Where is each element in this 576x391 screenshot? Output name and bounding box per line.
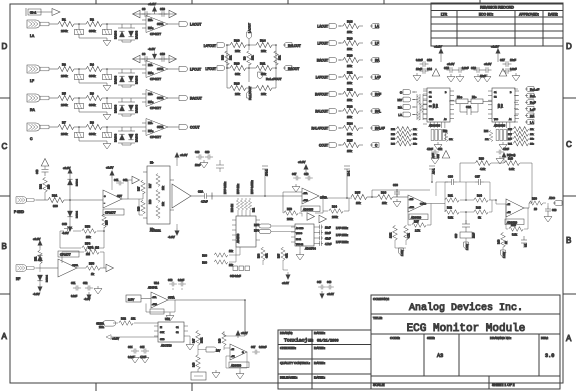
svg-text:C10: C10 xyxy=(160,7,165,11)
svg-text:10k: 10k xyxy=(347,30,352,34)
svg-text:INA+: INA+ xyxy=(148,72,154,75)
diode BAS04 down xyxy=(128,76,133,82)
resistor R36 10k xyxy=(377,195,392,200)
buffer tri FGND out xyxy=(132,176,140,184)
resistor R32 220 xyxy=(43,178,48,192)
capacitor RA1 xyxy=(78,98,80,103)
svg-text:+3.3V: +3.3V xyxy=(106,166,114,170)
connector RA xyxy=(27,94,51,102)
svg-text:R7: R7 xyxy=(62,121,66,125)
svg-text:C: C xyxy=(2,142,8,151)
mux gnd right2 xyxy=(474,74,482,82)
wilson wires row2 xyxy=(227,64,276,88)
svg-text:-3.3V: -3.3V xyxy=(62,231,69,235)
svg-text:RAOUT: RAOUT xyxy=(288,67,299,71)
resistor R53 10k xyxy=(82,229,96,234)
cap bank LPF xyxy=(318,225,323,230)
op-amp U10 label xyxy=(301,206,320,212)
resistor R41 xyxy=(445,198,459,203)
svg-text:R10: R10 xyxy=(234,39,240,43)
junction dots xyxy=(226,44,228,46)
svg-text:HPF 0.5Hz: HPF 0.5Hz xyxy=(224,181,227,194)
svg-text:LTR: LTR xyxy=(441,13,448,17)
resistor R39 4.3k xyxy=(475,161,490,166)
resistor R11 30k xyxy=(256,65,272,70)
svg-text:R11: R11 xyxy=(260,62,266,66)
svg-text:LF: LF xyxy=(30,79,34,83)
svg-text:C22: C22 xyxy=(438,149,443,151)
wire R5-R6 xyxy=(74,97,86,99)
svg-text:OP4177: OP4177 xyxy=(150,32,161,36)
revision record table xyxy=(431,3,563,46)
op-amp U12 AD8609 xyxy=(506,199,524,217)
svg-text:BAS04: BAS04 xyxy=(114,104,118,113)
svg-text:VSS S4: VSS S4 xyxy=(296,244,304,246)
svg-text:R41: R41 xyxy=(448,194,453,198)
op-amp U11 AD8609 xyxy=(408,195,426,212)
svg-text:LPF 25Hz: LPF 25Hz xyxy=(336,233,349,237)
resistor R15 20k vert xyxy=(274,51,279,65)
svg-text:BAS04: BAS04 xyxy=(135,30,139,39)
svg-text:R58 1M: R58 1M xyxy=(232,204,234,212)
svg-text:RA: RA xyxy=(398,106,402,110)
ground C28 xyxy=(200,160,208,168)
svg-text:-3.3V: -3.3V xyxy=(148,47,155,51)
svg-text:C33: C33 xyxy=(552,209,557,212)
svg-text:C38: C38 xyxy=(456,233,458,238)
svg-text:+IN: +IN xyxy=(507,212,511,214)
svg-text:200k: 200k xyxy=(287,217,293,221)
svg-text:C67: C67 xyxy=(251,346,256,349)
resistor Rb- xyxy=(471,99,483,104)
junction T xyxy=(211,193,213,200)
mux output flag R+L xyxy=(525,93,534,98)
ground C xyxy=(103,141,111,149)
supply rail +3.3V xyxy=(133,13,176,15)
diode D9 up xyxy=(67,179,72,185)
resistor Rb+ xyxy=(456,99,468,104)
svg-text:20k: 20k xyxy=(261,92,266,96)
svg-text:10k: 10k xyxy=(86,235,91,239)
resistor R21 10k xyxy=(343,74,359,79)
svg-text:JP2-1: JP2-1 xyxy=(266,169,269,176)
trimmer box xyxy=(191,372,206,380)
capacitor LA1 xyxy=(78,24,80,29)
svg-text:INA-: INA- xyxy=(148,122,153,125)
svg-text:R90: R90 xyxy=(532,197,537,201)
ladder wire L R18 xyxy=(339,25,343,27)
svg-text:R40: R40 xyxy=(508,157,513,161)
svg-text:200k: 200k xyxy=(61,103,68,107)
svg-text:R20: R20 xyxy=(347,54,353,58)
svg-text:R16: R16 xyxy=(234,82,240,86)
svg-text:F GND: F GND xyxy=(14,210,25,214)
svg-text:200k: 200k xyxy=(332,215,338,219)
svg-text:OUT1: OUT1 xyxy=(157,68,164,71)
svg-text:LFOUT: LFOUT xyxy=(190,68,201,72)
svg-text:300k: 300k xyxy=(89,132,96,136)
svg-text:D: D xyxy=(2,42,8,51)
mux cap C13 xyxy=(420,61,429,67)
svg-text:R39: R39 xyxy=(479,157,484,161)
resistor R61 box xyxy=(150,309,164,314)
wire U6 to U5 xyxy=(128,193,143,215)
ground mux right cluster xyxy=(499,142,507,150)
diode BAS04 down xyxy=(128,31,133,37)
svg-text:RF: RF xyxy=(16,277,20,281)
net flag R+LFOUT vertical xyxy=(247,92,252,98)
op-amp U7 OP2177 xyxy=(58,259,77,277)
net flag 1.25V c xyxy=(501,250,506,256)
resistor R16 20k xyxy=(230,85,246,90)
ladder net LA xyxy=(370,24,379,29)
svg-text:GND: GND xyxy=(160,339,165,341)
ground U15 caps xyxy=(131,355,139,363)
ladder net R+L xyxy=(370,109,379,114)
wire MP to U9 xyxy=(271,226,295,232)
svg-text:10k: 10k xyxy=(347,132,352,136)
feedback U10 xyxy=(283,192,323,213)
svg-text:HPF 0.05Hz: HPF 0.05Hz xyxy=(251,180,254,194)
svg-text:10k: 10k xyxy=(347,149,352,153)
power -3.3V switch xyxy=(286,272,291,280)
svg-text:10k: 10k xyxy=(382,201,387,205)
wire R41-R44 xyxy=(445,199,496,201)
svg-text:ECO NO:: ECO NO: xyxy=(479,13,493,17)
wire input C xyxy=(51,126,58,128)
svg-text:R14: R14 xyxy=(260,39,266,43)
svg-text:C29: C29 xyxy=(205,151,210,154)
svg-text:OP2177: OP2177 xyxy=(105,211,116,215)
svg-text:C: C xyxy=(566,140,572,149)
svg-text:QUALITY CONTROL:: QUALITY CONTROL: xyxy=(280,361,310,365)
svg-text:300k: 300k xyxy=(89,29,96,33)
svg-text:0.33uF: 0.33uF xyxy=(259,346,267,349)
svg-text:C13: C13 xyxy=(427,58,432,62)
wire op-amp out xyxy=(168,68,177,70)
resistor R42 5.6k xyxy=(445,210,459,215)
solder pads MP xyxy=(233,266,238,271)
resistor R48 vert xyxy=(196,355,201,369)
svg-text:OUTB: OUTB xyxy=(420,204,427,206)
power -3.3V RLD xyxy=(38,284,43,292)
resistor R54 1M xyxy=(82,246,96,251)
svg-text:C17: C17 xyxy=(500,58,505,62)
resistor R35 10k xyxy=(351,194,367,199)
mux gnd left xyxy=(413,73,421,81)
diode BAS04 up xyxy=(119,105,124,111)
svg-text:C49: C49 xyxy=(62,222,67,226)
svg-text:R21: R21 xyxy=(347,71,353,75)
wire FGND xyxy=(36,199,48,201)
power +3.3V mux left xyxy=(439,48,444,56)
svg-text:LPF H2Hz: LPF H2Hz xyxy=(336,240,349,244)
svg-text:LAOUT: LAOUT xyxy=(317,25,328,29)
diode BAS04 up xyxy=(119,31,124,37)
svg-text:MV: MV xyxy=(398,98,403,102)
svg-text:DATED:: DATED: xyxy=(314,346,325,350)
svg-text:+INB: +INB xyxy=(409,207,414,209)
ladder wire L R20 xyxy=(339,59,343,61)
svg-text:4.7uF: 4.7uF xyxy=(325,243,332,246)
svg-text:R55: R55 xyxy=(106,220,109,225)
svg-text:3.6k: 3.6k xyxy=(509,167,515,171)
svg-text:10uF: 10uF xyxy=(480,74,486,78)
svg-text:OUT1: OUT1 xyxy=(157,126,164,129)
mux buffer tri right xyxy=(499,69,507,77)
svg-text:R5: R5 xyxy=(62,92,66,96)
svg-text:C10: C10 xyxy=(160,52,165,56)
svg-text:Analog Devices Inc.: Analog Devices Inc. xyxy=(409,302,523,314)
svg-text:LFOUT: LFOUT xyxy=(318,42,329,46)
svg-text:10uF: 10uF xyxy=(195,164,201,167)
svg-text:B: B xyxy=(2,242,7,251)
pin header right mux xyxy=(496,122,510,128)
svg-text:+3.3V: +3.3V xyxy=(434,45,442,49)
zone ticks top xyxy=(96,0,480,4)
mux cap C15b xyxy=(456,67,465,73)
resistor R44 xyxy=(474,198,488,203)
op-amp RAOUT xyxy=(142,90,168,107)
net flag R+LOUT xyxy=(283,43,292,48)
svg-text:R51: R51 xyxy=(35,256,38,261)
svg-text:ADC: ADC xyxy=(549,196,555,200)
resistor R10 20k xyxy=(230,42,246,47)
resistor R38 120k vert xyxy=(393,226,398,240)
svg-text:B: B xyxy=(566,236,571,245)
diode BAS04 down xyxy=(128,134,133,140)
bypass caps U6 xyxy=(116,181,124,186)
op-amp U11 label xyxy=(409,214,428,220)
mux output flag RA xyxy=(525,113,534,118)
svg-text:LB-1: LB-1 xyxy=(348,170,351,176)
svg-text:R+LFOUT: R+LFOUT xyxy=(248,86,252,100)
svg-text:D: D xyxy=(566,42,572,51)
ground R48 xyxy=(212,370,220,378)
ladder wire R R21 xyxy=(359,76,363,78)
svg-text:+3.3V: +3.3V xyxy=(180,153,188,157)
mux cap C16b xyxy=(483,67,492,73)
feedback U12 xyxy=(496,200,528,229)
wire U14 out xyxy=(175,300,245,336)
svg-text:R45: R45 xyxy=(511,223,516,227)
svg-text:SCK: SCK xyxy=(160,332,165,334)
resistor R24 10k xyxy=(343,125,359,130)
mux input resistor pack xyxy=(417,94,423,120)
mux cap C18 xyxy=(503,68,512,74)
wire cap1 gnd xyxy=(79,80,107,83)
bypass cap A xyxy=(142,56,151,62)
svg-text:10k: 10k xyxy=(347,98,352,102)
ground mux left cluster xyxy=(434,142,442,150)
mux gnd right xyxy=(512,73,520,81)
IC U8 ADG736 xyxy=(236,216,256,247)
svg-text:R43: R43 xyxy=(476,206,481,210)
svg-text:DATED:: DATED: xyxy=(314,361,325,365)
svg-text:+IN: +IN xyxy=(231,356,235,358)
wire U12 out xyxy=(524,207,529,209)
svg-text:C64: C64 xyxy=(128,346,133,349)
connector LF xyxy=(27,65,51,73)
svg-text:-3.3V: -3.3V xyxy=(33,292,40,296)
resistor R64 vert xyxy=(261,248,265,261)
connector C xyxy=(27,123,51,131)
op-amp U16 label xyxy=(229,362,249,368)
svg-text:22nF: 22nF xyxy=(474,232,476,238)
svg-text:+3.3V: +3.3V xyxy=(484,62,492,66)
wire to diodes xyxy=(102,23,146,25)
resistor R27 22k xyxy=(141,180,145,194)
svg-text:-INA: -INA xyxy=(303,192,308,195)
ground U15 xyxy=(186,342,194,350)
capacitor C49 xyxy=(64,226,73,231)
svg-text:R46: R46 xyxy=(498,239,501,244)
svg-text:10k: 10k xyxy=(347,64,352,68)
svg-text:R54: R54 xyxy=(88,246,94,250)
svg-text:5.6k: 5.6k xyxy=(448,216,454,220)
resistor R18 10k xyxy=(343,23,359,28)
svg-text:2.5V: 2.5V xyxy=(128,298,134,302)
svg-text:C15: C15 xyxy=(444,66,449,70)
svg-text:C46: C46 xyxy=(327,282,332,284)
svg-text:AD8221: AD8221 xyxy=(150,229,161,233)
svg-text:DATE:: DATE: xyxy=(548,13,558,17)
svg-text:R48: R48 xyxy=(193,362,196,367)
wire R34 xyxy=(323,198,352,211)
bypass caps U14 xyxy=(169,282,177,287)
resistor R81 10k xyxy=(513,141,528,146)
op-amp U16 AD8600 xyxy=(230,344,247,360)
resistor R90 xyxy=(529,201,543,205)
svg-text:R4: R4 xyxy=(90,63,94,67)
svg-text:R+L: R+L xyxy=(530,94,536,98)
cap mux left 4.7uF xyxy=(431,150,439,155)
buffer tri filter xyxy=(319,215,327,223)
resistor R1 200k xyxy=(58,21,74,26)
svg-text:Rb+: Rb+ xyxy=(457,95,463,99)
svg-text:A: A xyxy=(566,334,572,343)
svg-text:R3: R3 xyxy=(62,63,66,67)
jumper JP3-1 xyxy=(344,166,350,198)
svg-text:4.7uF: 4.7uF xyxy=(503,149,509,151)
svg-text:RELEASED:: RELEASED: xyxy=(280,376,298,380)
svg-text:JB-1: JB-1 xyxy=(30,11,37,15)
svg-text:C60: C60 xyxy=(168,279,173,282)
svg-text:R+FOUT: R+FOUT xyxy=(315,93,328,97)
svg-text:C28: C28 xyxy=(195,151,200,154)
svg-text:L+FOUT: L+FOUT xyxy=(204,44,216,48)
IC U9 ADG704 xyxy=(295,224,314,246)
svg-text:R9: R9 xyxy=(243,56,247,60)
svg-text:C48: C48 xyxy=(304,173,309,176)
zone ticks bottom xyxy=(96,383,192,391)
capacitor LF1 xyxy=(78,69,80,74)
svg-text:OUT1: OUT1 xyxy=(157,97,164,100)
svg-text:2.7k: 2.7k xyxy=(415,229,421,233)
svg-text:DRAWN:: DRAWN: xyxy=(280,331,293,335)
svg-text:AD8600: AD8600 xyxy=(231,363,242,367)
svg-text:4.7uF: 4.7uF xyxy=(201,200,208,204)
svg-text:R22: R22 xyxy=(347,88,353,92)
wire R42-R43 xyxy=(445,200,492,224)
svg-text:C41: C41 xyxy=(114,179,119,182)
supply rail -3.3V xyxy=(133,58,176,60)
svg-text:DATED:: DATED: xyxy=(314,331,325,335)
resistor R19 10k xyxy=(343,40,359,45)
ground ADC xyxy=(544,214,552,222)
diode D10 down xyxy=(67,211,72,217)
diode D12 down xyxy=(37,275,42,281)
svg-text:VSS: VSS xyxy=(502,103,504,108)
svg-text:R+L+FOUT: R+L+FOUT xyxy=(266,77,282,81)
ladder wire R R20 xyxy=(359,59,363,61)
svg-text:R84: R84 xyxy=(484,131,489,133)
svg-text:2Ma: 2Ma xyxy=(99,325,105,329)
resistor R45 5.6k xyxy=(509,227,523,232)
pin header left mux xyxy=(431,122,445,128)
svg-text:3.0: 3.0 xyxy=(545,353,554,359)
svg-text:0.1uF: 0.1uF xyxy=(416,58,423,62)
svg-text:0.1uF: 0.1uF xyxy=(510,67,517,71)
svg-text:BAS04: BAS04 xyxy=(46,274,49,282)
mux gnd left2 xyxy=(447,74,455,82)
wire to U11 xyxy=(393,196,408,198)
resistor R88 10k xyxy=(214,253,228,257)
svg-text:+3.3V: +3.3V xyxy=(327,292,334,296)
resistor R74 10k xyxy=(396,127,411,132)
power -3.3V clamp xyxy=(68,224,73,232)
resistor R40 3.6k xyxy=(504,161,519,166)
svg-text:AD8609: AD8609 xyxy=(411,215,422,219)
ladder wire L R19 xyxy=(339,42,343,44)
svg-text:-INB: -INB xyxy=(409,199,414,201)
svg-text:200k: 200k xyxy=(61,29,68,33)
wire cap1 gnd xyxy=(79,109,107,112)
resistor R65 vert xyxy=(281,248,285,261)
svg-text:VDD: VDD xyxy=(434,103,436,108)
svg-text:10nF: 10nF xyxy=(325,227,331,230)
resistor R6 300k xyxy=(86,95,102,100)
svg-text:4.3k: 4.3k xyxy=(480,167,486,171)
op-amp COUT xyxy=(142,119,168,136)
resistor R2 300k xyxy=(86,21,102,26)
net flag LAOUT xyxy=(177,21,187,26)
svg-text:R6: R6 xyxy=(90,92,94,96)
jumper JB-1 xyxy=(26,8,52,16)
svg-text:TITLE:: TITLE: xyxy=(373,316,382,320)
svg-text:30k: 30k xyxy=(235,72,240,76)
svg-text:CHECKED:: CHECKED: xyxy=(280,346,296,350)
diode clamp rails xyxy=(118,127,135,145)
svg-text:R64: R64 xyxy=(259,253,261,258)
buffer tri right xyxy=(169,55,177,63)
resistor R79 10k xyxy=(513,136,528,141)
resistor R9 20k vert xyxy=(247,51,252,65)
svg-text:1.25V: 1.25V xyxy=(401,249,404,256)
resistor R62 10k xyxy=(119,321,133,326)
svg-text:L+FOUT: L+FOUT xyxy=(316,76,328,80)
svg-text:LPF 35Hz: LPF 35Hz xyxy=(336,226,349,230)
svg-text:BAS04: BAS04 xyxy=(114,133,118,142)
wilson wires row1 xyxy=(227,45,276,68)
svg-text:VDD D: VDD D xyxy=(296,233,303,235)
svg-text:R61: R61 xyxy=(254,207,256,212)
wire fb long top xyxy=(460,163,532,203)
svg-text:4.7k: 4.7k xyxy=(408,233,411,238)
svg-text:REVISION RECORD: REVISION RECORD xyxy=(480,6,514,10)
title block main xyxy=(371,295,560,389)
svg-text:10k: 10k xyxy=(347,47,352,51)
